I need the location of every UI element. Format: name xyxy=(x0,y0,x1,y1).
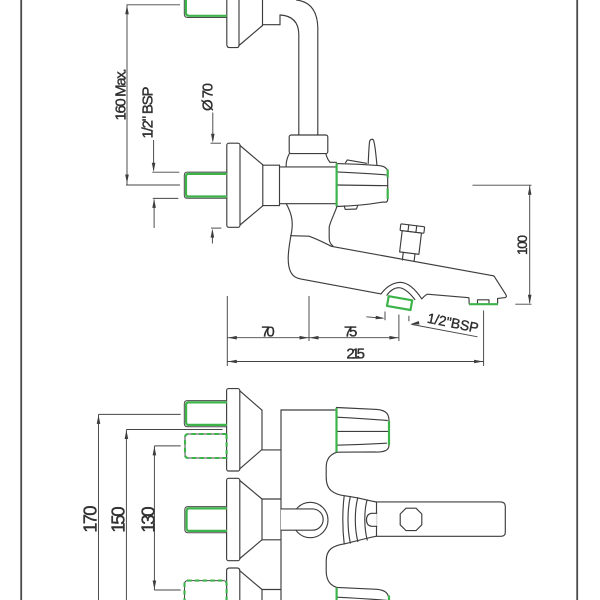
svg-text:70: 70 xyxy=(261,324,274,341)
svg-text:Ø 70: Ø 70 xyxy=(199,83,216,111)
svg-text:1/2" BSP: 1/2" BSP xyxy=(140,87,157,139)
svg-text:130: 130 xyxy=(137,506,158,533)
svg-text:170: 170 xyxy=(80,506,101,533)
svg-text:100: 100 xyxy=(515,235,530,255)
svg-text:215: 215 xyxy=(346,346,365,363)
svg-text:160 Max.: 160 Max. xyxy=(113,69,130,121)
svg-text:150: 150 xyxy=(107,506,128,533)
svg-text:75: 75 xyxy=(344,324,357,341)
